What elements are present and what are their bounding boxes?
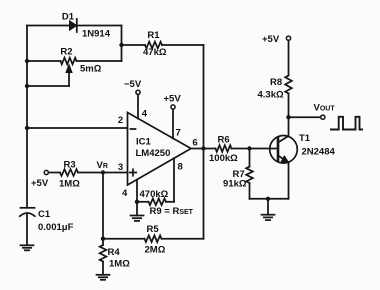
label R4	[108, 247, 121, 258]
svg-text:T1: T1	[299, 133, 311, 144]
wiper arrow of R2	[66, 65, 72, 86]
svg-text:1N914: 1N914	[82, 29, 111, 40]
wire R1 row right	[162, 44, 204, 46]
node pin4-ground junction	[135, 200, 139, 204]
wire output pin 6	[191, 148, 204, 150]
svg-text:100kΩ: 100kΩ	[209, 153, 238, 164]
op-amp minus sign	[131, 128, 136, 130]
transistor T1 emitter arrow	[281, 156, 289, 163]
label pin 2	[118, 115, 123, 126]
label R8	[270, 77, 282, 88]
label 1N914	[82, 29, 111, 40]
diode D1	[70, 19, 77, 32]
label pin 4 (top)	[142, 109, 148, 120]
svg-text:2N2484: 2N2484	[302, 147, 336, 158]
node junction on left rail at pin2 row	[25, 126, 29, 130]
label 4.3k&#937;	[258, 90, 284, 101]
label D1	[62, 12, 75, 23]
wire pin 8 down	[173, 158, 175, 202]
svg-text:47kΩ: 47kΩ	[143, 47, 167, 58]
svg-text:VR: VR	[97, 160, 108, 171]
wire VR column	[102, 173, 104, 239]
waveform square-wave symbol	[331, 117, 362, 130]
wire collector up	[288, 117, 290, 136]
label R5	[147, 224, 160, 235]
label IC1	[136, 137, 152, 148]
label R2	[60, 47, 72, 58]
label 100k&#937;	[209, 153, 238, 164]
wire emitter bottom row	[250, 198, 289, 200]
svg-text:7: 7	[176, 128, 181, 139]
svg-text:D1: D1	[62, 12, 75, 23]
svg-text:R8: R8	[270, 77, 282, 88]
svg-text:470kΩ: 470kΩ	[140, 189, 169, 200]
terminal +5V (top right)	[286, 36, 290, 40]
resistor R7	[246, 149, 253, 199]
label +5V (top right)	[262, 34, 280, 45]
wire R2 row right	[77, 60, 122, 62]
label pin 8	[178, 162, 183, 173]
ground below emitter	[262, 199, 275, 220]
svg-text:3: 3	[118, 162, 123, 173]
label VOUT	[314, 103, 336, 114]
node emitter-ground junction	[266, 197, 270, 201]
svg-text:LM4250: LM4250	[136, 148, 171, 159]
label T1	[299, 133, 311, 144]
resistor R6	[204, 145, 279, 152]
label +5V (pin 7)	[164, 94, 182, 105]
resistor R8	[285, 40, 292, 117]
svg-text:4: 4	[122, 188, 128, 199]
label pin 6	[192, 138, 197, 149]
label 1M&#937; (R3)	[59, 179, 80, 190]
transistor T1 base bar	[277, 138, 280, 161]
wire C1 to ground	[26, 214, 28, 245]
wire +5V to R3	[49, 172, 61, 174]
svg-text:4.3kΩ: 4.3kΩ	[258, 90, 284, 101]
node junction D1-R1	[119, 43, 123, 47]
svg-text:1MΩ: 1MΩ	[59, 179, 80, 190]
label R3	[64, 160, 76, 171]
wire pin 4 (bottom) down	[136, 180, 138, 202]
terminal +5V (left)	[44, 170, 48, 174]
node VR junction	[101, 170, 105, 174]
terminal -5V	[136, 90, 140, 94]
svg-text:+5V: +5V	[164, 94, 182, 105]
svg-text:8: 8	[178, 162, 183, 173]
ground below C1	[21, 245, 34, 250]
label LM4250	[136, 148, 171, 159]
svg-text:R5: R5	[147, 224, 160, 235]
svg-text:5mΩ: 5mΩ	[80, 64, 102, 75]
op-amp plus sign	[130, 169, 136, 175]
label -5V	[124, 79, 142, 90]
wire vertical D1/R2 to R1 junction	[121, 26, 123, 62]
svg-text:−5V: −5V	[124, 79, 142, 90]
resistor R4	[100, 239, 107, 275]
label R1	[147, 30, 160, 41]
capacitor C1	[20, 208, 35, 216]
wire R3 to pin 3	[78, 172, 128, 174]
node VR-R4-R5 junction	[101, 237, 105, 241]
label 0.001uF	[38, 222, 74, 233]
label pin 7	[176, 128, 181, 139]
wire right column R1-output-R5	[203, 45, 205, 239]
svg-text:2: 2	[118, 115, 123, 126]
label C1	[38, 209, 51, 220]
svg-text:1MΩ: 1MΩ	[109, 259, 130, 270]
terminal VOUT	[321, 115, 325, 119]
svg-text:R6: R6	[218, 135, 230, 146]
ground below R4	[97, 275, 110, 280]
label +5V (left)	[31, 178, 49, 189]
svg-text:R4: R4	[108, 247, 121, 258]
transistor T1 2N2484 body	[270, 136, 298, 164]
svg-text:91kΩ: 91kΩ	[223, 179, 247, 190]
wire left rail	[26, 26, 28, 208]
label pin 3	[118, 162, 123, 173]
svg-text:4: 4	[142, 109, 148, 120]
resistor R9 470k	[137, 199, 174, 206]
label 2N2484	[302, 147, 336, 158]
node output junction	[201, 146, 205, 150]
label pin 4 (bottom)	[122, 188, 128, 199]
svg-text:0.001μF: 0.001μF	[38, 222, 74, 233]
svg-text:C1: C1	[38, 209, 51, 220]
resistor R1	[145, 42, 162, 49]
svg-text:2MΩ: 2MΩ	[145, 245, 166, 256]
wire R2 row left	[27, 60, 61, 62]
wire emitter down	[288, 162, 290, 199]
wire pin 7 to +5V	[172, 109, 174, 138]
terminal +5V (pin 7)	[171, 105, 175, 109]
wire to VOUT	[289, 116, 321, 118]
transistor T1 emitter stroke	[278, 156, 289, 163]
svg-text:IC1: IC1	[136, 137, 152, 148]
wire wiper return	[27, 85, 69, 87]
label R9 = RSET	[150, 206, 194, 217]
svg-text:R1: R1	[147, 30, 160, 41]
wire R1 row left	[122, 44, 146, 46]
node collector junction	[286, 115, 290, 119]
label 47k&#937;	[143, 47, 167, 58]
transistor T1 collector stroke	[278, 136, 289, 143]
ground at pin 4	[131, 202, 144, 221]
resistor R5	[103, 235, 204, 242]
svg-text:R2: R2	[60, 47, 72, 58]
node junction on left rail at wiper row	[25, 84, 29, 88]
label 470k&#937;	[140, 189, 169, 200]
op-amp IC1 LM4250 triangle	[128, 113, 192, 186]
wire pin 4 to -5V	[137, 94, 139, 118]
label R7	[233, 169, 245, 180]
svg-text:R9 = RSET: R9 = RSET	[150, 206, 194, 217]
wire inverting input (pin 2)	[27, 127, 128, 129]
node junction on left rail at R2 row	[25, 59, 29, 63]
wire top row right of D1	[77, 25, 122, 27]
node base junction	[247, 146, 251, 150]
label 91k&#937;	[223, 179, 247, 190]
svg-text:R3: R3	[64, 160, 76, 171]
label 5m&#937;	[80, 64, 102, 75]
wire top row left of D1	[27, 25, 70, 27]
label node VR	[97, 160, 108, 171]
label R6	[218, 135, 230, 146]
svg-text:VOUT: VOUT	[314, 103, 336, 114]
svg-text:+5V: +5V	[262, 34, 280, 45]
label 2M&#937;	[145, 245, 166, 256]
label 1M&#937; (R4)	[109, 259, 130, 270]
svg-text:6: 6	[192, 138, 197, 149]
svg-text:+5V: +5V	[31, 178, 49, 189]
resistor R2 (potentiometer)	[61, 58, 77, 65]
resistor R3	[60, 169, 78, 176]
